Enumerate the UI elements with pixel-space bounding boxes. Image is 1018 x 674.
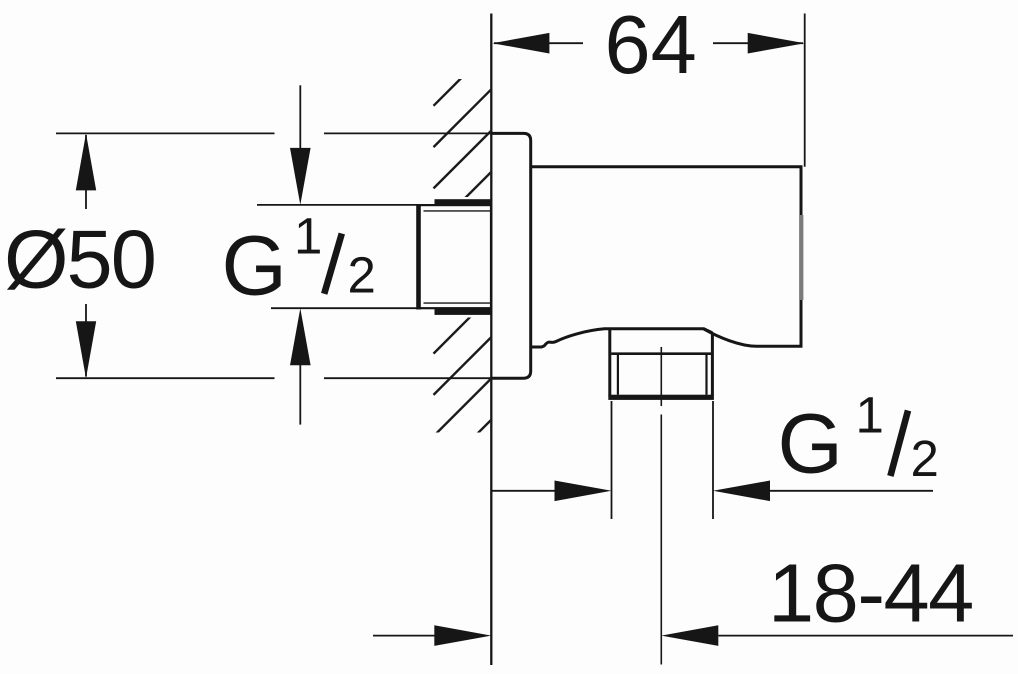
svg-text:1: 1	[294, 207, 322, 264]
svg-text:1: 1	[856, 387, 884, 444]
wall line	[490, 14, 492, 666]
center line	[660, 347, 662, 665]
grey mid segment of right edge	[800, 215, 803, 300]
dimension 64 (top)	[494, 14, 805, 167]
wall hatching	[434, 48, 492, 478]
dimension G 1/2 (inlet, left)	[257, 85, 417, 424]
outlet nut	[608, 328, 714, 400]
inlet nipple G1/2 (behind wall)	[416, 197, 492, 318]
svg-text:64: 64	[605, 0, 697, 91]
svg-text:2: 2	[911, 430, 939, 487]
dimension G 1/2 (outlet, bottom right)	[491, 401, 933, 519]
wall flange / escutcheon	[491, 133, 530, 378]
dimension O50 (left)	[56, 133, 491, 378]
svg-text:G: G	[778, 397, 843, 491]
svg-text:18-44: 18-44	[768, 547, 973, 640]
body outline	[531, 167, 801, 347]
dimension 18-44 (bottom)	[373, 635, 1013, 637]
svg-text:G: G	[222, 218, 287, 312]
svg-text:2: 2	[348, 247, 376, 304]
svg-text:Ø50: Ø50	[4, 213, 155, 306]
